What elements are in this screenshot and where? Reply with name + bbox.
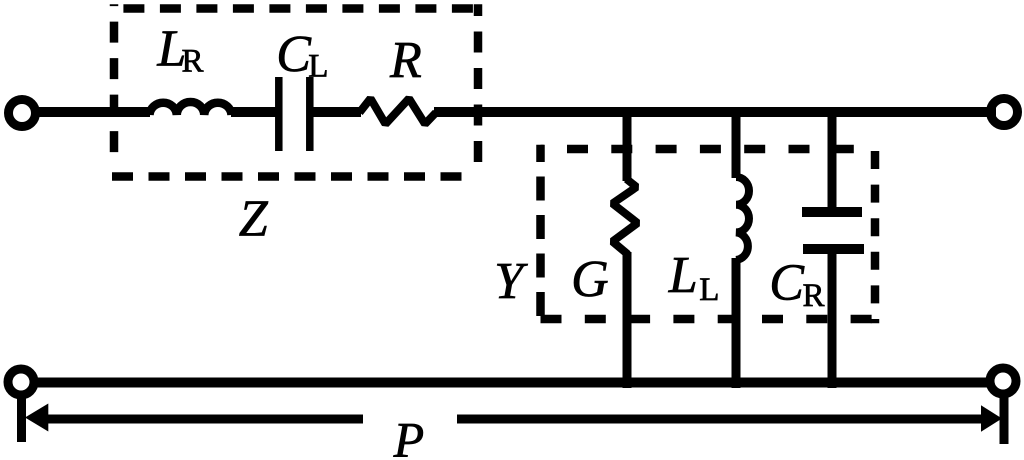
dashed box Z top edge xyxy=(112,4,478,13)
resistor G xyxy=(613,179,638,255)
wire R to right terminal xyxy=(434,107,996,117)
terminal bottom-left xyxy=(8,369,34,395)
wire dimension right segment xyxy=(457,415,982,424)
capacitor CR top plate xyxy=(802,207,862,217)
arrowhead right xyxy=(981,405,1002,432)
svg-text:P: P xyxy=(393,412,425,460)
dashed box Z right edge xyxy=(474,4,483,172)
wire top rail xyxy=(39,107,150,117)
dashed box Z bottom edge xyxy=(112,172,476,181)
dashed box Y left edge xyxy=(536,145,545,324)
wire shunt CR upper xyxy=(828,107,837,212)
capacitor CR bottom plate xyxy=(803,244,864,254)
svg-text:L: L xyxy=(308,49,328,85)
arrowhead left xyxy=(25,404,48,432)
svg-text:L: L xyxy=(668,247,698,304)
wire shunt G upper xyxy=(623,107,632,181)
svg-text:R: R xyxy=(389,32,422,89)
wire top rail right part xyxy=(231,107,277,117)
terminal top-right xyxy=(991,99,1018,126)
wire shunt LL upper xyxy=(732,107,741,178)
wire shunt CR lower xyxy=(828,249,837,388)
wire shunt G lower xyxy=(623,252,632,388)
dashed box Y bottom edge xyxy=(541,315,876,324)
dashed box Y top edge xyxy=(541,145,876,154)
wire bottom rail xyxy=(37,378,987,388)
extension line left xyxy=(17,397,26,442)
svg-text:C: C xyxy=(276,26,312,83)
inductor LR xyxy=(150,102,232,115)
terminal top-left xyxy=(9,100,36,127)
svg-text:Y: Y xyxy=(494,253,528,310)
resistor R xyxy=(360,99,437,125)
svg-text:C: C xyxy=(769,254,805,311)
capacitor CL xyxy=(275,77,283,151)
svg-text:R: R xyxy=(182,44,204,80)
dashed box Y right edge xyxy=(871,145,880,324)
dashed box Z left edge xyxy=(110,4,119,158)
terminal bottom-right xyxy=(990,368,1016,394)
wire dimension left segment xyxy=(46,415,363,424)
wire shunt LL lower xyxy=(732,258,741,388)
svg-text:G: G xyxy=(571,251,609,308)
svg-text:R: R xyxy=(803,278,825,314)
extension line right xyxy=(1000,397,1009,444)
inductor LL xyxy=(736,177,749,260)
svg-text:L: L xyxy=(699,272,719,308)
svg-text:Z: Z xyxy=(239,190,269,247)
wire between CL and R xyxy=(311,107,361,117)
